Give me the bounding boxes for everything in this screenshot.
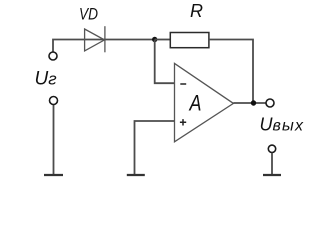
terminal Uвых signal bbox=[266, 99, 274, 107]
wire Uвых common down bbox=[271, 153, 273, 175]
wire output bbox=[233, 102, 265, 104]
op-amp non-inverting pin label + bbox=[180, 119, 186, 125]
terminal Uвых common bbox=[268, 145, 275, 152]
node junction feedback bbox=[152, 37, 157, 42]
resistor R bbox=[170, 33, 209, 48]
svg-text:R: R bbox=[190, 1, 203, 21]
terminal Uг common bbox=[50, 97, 58, 105]
diode VD bbox=[85, 26, 105, 52]
op-amp inverting pin label - bbox=[180, 83, 186, 85]
wire input top: from Uг stub up and right through diode to feedback node bbox=[53, 40, 155, 53]
ground left bar bbox=[44, 174, 63, 176]
svg-text:A: A bbox=[188, 91, 202, 116]
ground middle bar bbox=[127, 174, 145, 176]
wire non-inverting input to ground bbox=[135, 121, 175, 175]
wire junction to resistor bbox=[155, 39, 171, 41]
svg-text:VD: VD bbox=[79, 5, 98, 24]
op-amp U1 triangle bbox=[175, 63, 234, 141]
wire Uг common down bbox=[53, 105, 55, 176]
node output junction bbox=[251, 100, 256, 105]
wire resistor right to output node bbox=[209, 40, 253, 104]
svg-text:Uг: Uг bbox=[35, 68, 57, 89]
wire feedback to inverting input bbox=[155, 40, 175, 84]
ground right bar bbox=[263, 174, 281, 176]
terminal Uг signal bbox=[49, 52, 57, 60]
svg-text:Uвых: Uвых bbox=[260, 115, 305, 135]
